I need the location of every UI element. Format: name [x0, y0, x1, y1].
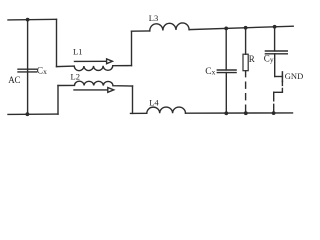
- wire left vertical up to L2 row: [57, 86, 59, 115]
- node junction Cx2 bottom: [224, 111, 228, 115]
- node junction Cy/GND bottom: [272, 111, 276, 115]
- wire bottom-middle to L4: [131, 112, 147, 114]
- svg-text:L4: L4: [149, 98, 159, 108]
- svg-text:GND: GND: [285, 71, 303, 81]
- capacitor Cx1 plates: [18, 69, 37, 72]
- wire stub to ground terminal: [275, 76, 283, 78]
- inductor L1 winding (arcs below wire): [57, 66, 132, 71]
- capacitor Cy top lead: [274, 27, 276, 51]
- inductor L4 winding: [147, 107, 186, 113]
- svg-text:R: R: [249, 54, 255, 64]
- node junction Cy top: [273, 25, 277, 29]
- inductor L2 winding (arcs above wire): [58, 81, 133, 86]
- inductor L2 direction arrow: [74, 89, 108, 91]
- capacitor Cx2 bottom lead: [225, 73, 227, 114]
- wire right vertical from L1 up to L3 row: [131, 31, 133, 65]
- svg-text:L3: L3: [149, 13, 158, 23]
- capacitor Cx1 lead (vertical wire through Cx): [27, 20, 29, 115]
- wire top-left rail: [8, 18, 57, 21]
- inductor L3 winding: [150, 23, 189, 31]
- node junction Cx2 top: [224, 27, 228, 31]
- svg-text:Cx: Cx: [205, 67, 215, 77]
- wire vertical to bottom rail (broken): [273, 92, 275, 113]
- capacitor Cx2 plates: [217, 70, 236, 73]
- node junction R top: [244, 26, 248, 30]
- capacitor Cy bottom lead: [274, 54, 276, 77]
- capacitor Cy plates: [265, 51, 287, 54]
- wire left vertical down to L1 row: [56, 19, 58, 66]
- resistor R body (box): [243, 54, 248, 70]
- wire jog from ground line to bottom rail: [274, 91, 283, 93]
- wire top-right rail: [189, 26, 293, 29]
- resistor R bottom lead (dashed): [245, 71, 247, 114]
- ground terminal bar: [281, 72, 283, 82]
- inductor L1 direction arrow: [75, 60, 107, 62]
- wire dashed from ground bar down: [281, 81, 283, 91]
- capacitor Cx2 top lead: [225, 28, 227, 70]
- wire bottom-right rail: [186, 112, 293, 114]
- svg-text:L1: L1: [73, 46, 82, 56]
- wire right vertical from L2 down to L4 row: [132, 86, 134, 113]
- resistor R top lead: [245, 28, 247, 55]
- svg-text:Cy: Cy: [264, 53, 274, 64]
- svg-text:Cx: Cx: [37, 66, 47, 76]
- svg-text:L2: L2: [71, 71, 80, 81]
- wire bottom-left rail: [8, 113, 58, 115]
- svg-text:AC: AC: [8, 75, 20, 85]
- node junction Cx1 top: [26, 18, 30, 22]
- wire top-middle to L3: [132, 30, 150, 32]
- node junction R bottom: [244, 111, 248, 115]
- node junction Cx1 bottom: [26, 112, 30, 116]
